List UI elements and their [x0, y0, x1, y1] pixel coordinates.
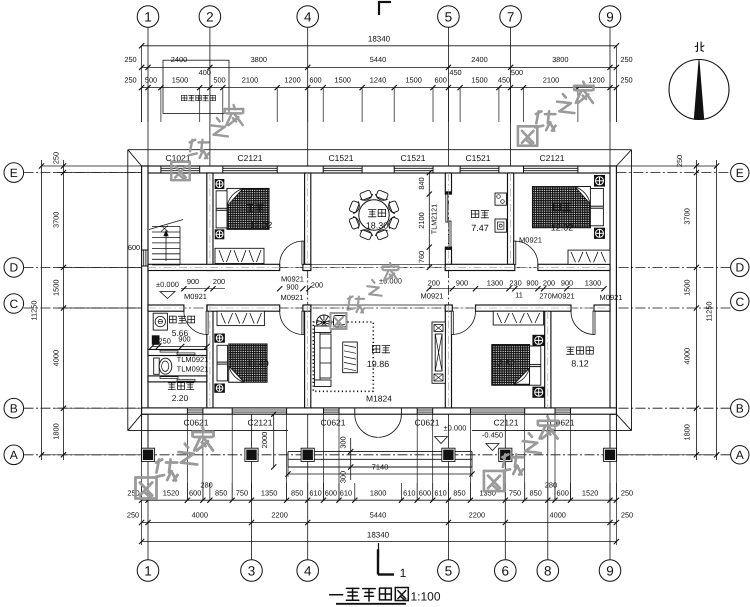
svg-text:E: E: [736, 166, 744, 180]
svg-text:1300: 1300: [585, 278, 601, 287]
svg-text:TLM0921: TLM0921: [177, 365, 209, 374]
bathroom divider wall lower: [148, 376, 207, 382]
svg-text:250: 250: [127, 510, 139, 519]
svg-text:13.52: 13.52: [493, 359, 516, 369]
dim 840 2100 760 beside dining: [428, 173, 430, 268]
svg-text:D: D: [9, 261, 18, 275]
dining table round with 8 chairs: [359, 200, 389, 230]
room label dining: [368, 210, 376, 217]
sliding door TLM2121 on grid5 wall: [446, 194, 448, 222]
svg-text:C: C: [735, 295, 744, 309]
svg-text:TLM0921: TLM0921: [177, 355, 209, 364]
nightstand+lamp bedroom4 lower: [532, 387, 545, 398]
watermark 3: [518, 126, 537, 145]
svg-text:4000: 4000: [683, 348, 692, 364]
wall on grid 2 (C-B): [207, 305, 213, 408]
TV cabinet living room: [432, 322, 445, 383]
sofa living room: [315, 332, 321, 380]
svg-text:E: E: [10, 166, 18, 180]
right exterior wall: [610, 166, 616, 414]
svg-text:TLM2121: TLM2121: [430, 204, 439, 234]
svg-text:610: 610: [403, 488, 415, 497]
svg-text:2100: 2100: [543, 76, 559, 85]
svg-text:250: 250: [675, 155, 684, 167]
svg-text:2000: 2000: [260, 432, 269, 448]
coffee table: [343, 342, 358, 373]
svg-text:5.66: 5.66: [172, 328, 189, 338]
svg-text:4000: 4000: [51, 350, 60, 366]
svg-text:610: 610: [309, 488, 321, 497]
svg-text:1: 1: [144, 9, 152, 24]
nightstand+lamp bedroom3 lower: [214, 384, 225, 393]
door M0921 bedroom2 (in wall D, swings up): [514, 241, 516, 264]
svg-text:1300: 1300: [487, 278, 503, 287]
svg-text:1350: 1350: [479, 488, 495, 497]
svg-text:1500: 1500: [51, 279, 60, 295]
gridline 7: [510, 27, 512, 166]
dim 7140 steps width: [288, 473, 472, 475]
svg-text:850: 850: [215, 488, 227, 497]
svg-text:250: 250: [124, 55, 136, 64]
room label bathroom: [169, 316, 176, 323]
svg-text:600: 600: [128, 243, 140, 252]
svg-text:9: 9: [606, 9, 614, 24]
svg-text:200: 200: [543, 278, 555, 287]
gridline 8: [547, 306, 549, 414]
headboard bedroom1: [216, 191, 227, 228]
washing machine bathroom: [153, 313, 167, 330]
svg-text:2200: 2200: [271, 510, 287, 519]
svg-text:600: 600: [189, 488, 201, 497]
svg-text:200: 200: [311, 281, 323, 290]
wall on grid 4 (E-D): [305, 173, 311, 271]
svg-text:250: 250: [620, 76, 632, 85]
wall on grid 4 (C-B): [305, 305, 311, 408]
entrance double door M1824: [354, 408, 356, 414]
svg-text:5: 5: [445, 563, 453, 578]
svg-text:3700: 3700: [683, 208, 692, 224]
closet bedroom2 hatch: [568, 250, 610, 264]
svg-text:2100: 2100: [417, 212, 426, 228]
watermark 2: [331, 313, 347, 329]
room label washroom: [168, 383, 175, 390]
svg-text:750: 750: [236, 488, 248, 497]
svg-text:4000: 4000: [549, 510, 565, 519]
svg-text:5440: 5440: [370, 510, 386, 519]
svg-text:280: 280: [200, 481, 212, 490]
svg-text:1520: 1520: [582, 488, 598, 497]
bathroom divider wall upper: [148, 350, 207, 356]
sliding door TLM0921 on lower bathroom divider: [160, 377, 178, 379]
kitchen counter with sink: [495, 219, 506, 232]
svg-text:300: 300: [338, 471, 347, 483]
headboard bedroom4: [530, 346, 541, 385]
svg-text:900: 900: [526, 278, 538, 287]
svg-text:1: 1: [144, 563, 152, 578]
svg-text:5: 5: [445, 9, 453, 24]
wall on grid 8 (C-B): [545, 305, 551, 408]
bottom exterior wall: [142, 408, 617, 414]
nightstand+lamp bedroom3 upper: [214, 334, 225, 343]
svg-text:7.47: 7.47: [471, 223, 489, 233]
left extension lines: [42, 165, 142, 167]
nightstand+lamp bedroom4 upper: [532, 335, 545, 346]
septic tank rectangle: [163, 60, 229, 113]
axis bubbles right: [731, 163, 749, 181]
svg-text:900: 900: [456, 278, 468, 287]
window left wall stair bay: [143, 250, 145, 266]
north arrow: [669, 60, 729, 120]
svg-text:2200: 2200: [469, 510, 485, 519]
svg-text:2400: 2400: [171, 55, 187, 64]
svg-text:3800: 3800: [552, 55, 568, 64]
faint centerlines through walls: [209, 173, 211, 264]
svg-text:4: 4: [304, 9, 312, 24]
svg-text:500: 500: [213, 76, 225, 85]
eave corner diagonals: [128, 150, 142, 166]
gridline A: [24, 454, 732, 456]
svg-text:12.02: 12.02: [250, 220, 273, 230]
watermark 1: [171, 162, 189, 180]
entrance steps: [288, 451, 472, 453]
gridline 5: [447, 27, 449, 166]
svg-text:M0921: M0921: [421, 291, 444, 300]
svg-text:B: B: [736, 402, 744, 416]
svg-text:1350: 1350: [261, 488, 277, 497]
porch side lines right: [615, 414, 617, 449]
svg-text:C2121: C2121: [539, 153, 564, 163]
closet bedroom3 hatch: [217, 311, 264, 325]
svg-text:450: 450: [449, 68, 461, 77]
gridline 4: [307, 27, 309, 166]
svg-text:11250: 11250: [29, 300, 38, 320]
svg-text:900: 900: [561, 278, 573, 287]
svg-text:300: 300: [338, 436, 347, 448]
svg-text:900: 900: [187, 277, 199, 286]
svg-text:600: 600: [325, 488, 337, 497]
nightstand+lamp bedroom2 lower: [594, 228, 605, 239]
svg-text:250: 250: [621, 488, 633, 497]
room label dressing: [567, 347, 575, 354]
right extension lines: [616, 165, 716, 167]
svg-text:1500: 1500: [405, 76, 421, 85]
top dimension row axis distances: [142, 66, 617, 68]
svg-text:M0921: M0921: [600, 293, 623, 302]
single sofa chair: [334, 316, 347, 328]
kitchen counter with stove: [495, 193, 506, 205]
gridline 1: [147, 27, 149, 166]
svg-text:5440: 5440: [370, 55, 386, 64]
room label bedroom2: [554, 203, 561, 210]
section mark bottom (L shape): [377, 549, 379, 574]
svg-text:600: 600: [557, 488, 569, 497]
svg-text:M0921: M0921: [281, 293, 304, 302]
window C1521 top wall dining left: [323, 167, 362, 169]
svg-text:M1824: M1824: [366, 394, 392, 404]
window C0621 bottom wall dressing room: [555, 409, 571, 411]
svg-text:C0621: C0621: [183, 418, 208, 428]
room label living: [373, 345, 380, 352]
svg-text:C2121: C2121: [247, 418, 272, 428]
window C1521 top wall dining right: [394, 167, 433, 169]
svg-text:C0621: C0621: [414, 418, 439, 428]
sliding door TLM0921 on upper bathroom divider: [160, 350, 178, 352]
window C0621 bottom wall living right: [417, 409, 433, 411]
svg-text:600: 600: [419, 488, 431, 497]
window C0621 bottom wall living left: [324, 409, 340, 411]
nightstand+lamp bedroom1 lower: [215, 229, 225, 239]
top exterior wall: [142, 166, 617, 173]
svg-text:11.49: 11.49: [247, 359, 269, 369]
svg-text:610: 610: [434, 488, 446, 497]
svg-text:-0.450: -0.450: [482, 431, 503, 440]
lintel line over living-corridor opening: [311, 304, 446, 306]
eave outline: [128, 149, 632, 151]
svg-text:840: 840: [417, 177, 426, 189]
svg-text:250: 250: [127, 488, 139, 497]
svg-text:4000: 4000: [192, 510, 208, 519]
toilet washroom: [154, 358, 160, 374]
nightstand+lamp bedroom1 upper: [215, 179, 225, 189]
svg-text:18.30: 18.30: [366, 221, 389, 231]
svg-text:250: 250: [124, 76, 136, 85]
door M0921 bedroom3 (in wall C, swings down): [302, 311, 304, 334]
svg-text:C2121: C2121: [493, 418, 518, 428]
svg-text:1800: 1800: [370, 488, 386, 497]
watermark 4: [136, 478, 157, 499]
stair break line: [149, 220, 183, 230]
svg-text:D: D: [735, 261, 744, 275]
door M0921 bedroom4 (in wall C, swings down): [451, 311, 453, 334]
gridline 2: [209, 27, 211, 166]
svg-text:8: 8: [544, 563, 552, 578]
svg-text:6: 6: [502, 563, 510, 578]
gridline 3: [251, 414, 253, 560]
section mark top: [378, 1, 380, 15]
svg-text:A: A: [736, 448, 744, 462]
svg-text:C2121: C2121: [237, 153, 262, 163]
svg-text:1200: 1200: [588, 76, 604, 85]
wall C segments: [148, 305, 184, 311]
svg-text:450: 450: [498, 76, 510, 85]
svg-text:B: B: [10, 402, 18, 416]
svg-text:270M0921: 270M0921: [539, 291, 574, 300]
gridline 6: [504, 414, 506, 560]
gridline C: [24, 307, 732, 309]
svg-text:±0.000: ±0.000: [444, 424, 467, 433]
svg-text:19.86: 19.86: [367, 359, 390, 369]
svg-text:C1521: C1521: [400, 153, 425, 163]
svg-text:2.20: 2.20: [172, 393, 189, 403]
axis bubbles top: [137, 6, 159, 28]
svg-text:1800: 1800: [51, 423, 60, 439]
headboard bedroom2: [590, 189, 603, 226]
svg-text:M0921: M0921: [184, 292, 207, 301]
axis bubbles left: [4, 163, 24, 183]
bed bedroom4: [492, 345, 530, 386]
plant in living room: [317, 315, 332, 330]
svg-text:C1521: C1521: [328, 153, 353, 163]
window C1021 top wall stair bay: [161, 167, 200, 169]
svg-text:1500: 1500: [334, 76, 350, 85]
room label kitchen: [472, 210, 479, 217]
wall on grid 5 (C-B): [445, 305, 451, 408]
sliding door TLM2121 jamb caps: [445, 191, 451, 194]
svg-text:850: 850: [453, 488, 465, 497]
svg-text:C0621: C0621: [320, 418, 345, 428]
gridline 9: [609, 27, 611, 166]
gridline D: [24, 266, 732, 268]
left dims: [63, 160, 65, 460]
bottom dimension row detailed: [142, 499, 617, 501]
svg-text:1800: 1800: [683, 424, 692, 440]
black pier bathroom: [152, 335, 160, 345]
svg-text:200: 200: [213, 277, 225, 286]
svg-text:230: 230: [509, 278, 521, 287]
svg-text:3800: 3800: [251, 55, 267, 64]
bed bedroom2: [533, 187, 591, 228]
stair up arrow: [165, 234, 167, 261]
porch columns on axis A: [141, 448, 154, 461]
wall on grid 5 upper segment with sliding door opening: [445, 173, 451, 194]
svg-text:250: 250: [620, 55, 632, 64]
svg-text:250: 250: [621, 510, 633, 519]
bottom dim extension lines: [141, 483, 143, 500]
svg-text:3: 3: [248, 563, 256, 578]
svg-text:11: 11: [515, 291, 523, 300]
svg-text:250: 250: [51, 152, 60, 164]
svg-text:850: 850: [530, 488, 542, 497]
living room carpet dotted: [313, 322, 373, 391]
svg-text:760: 760: [417, 251, 426, 263]
svg-text:500: 500: [145, 76, 157, 85]
door M0921 bathroom (in wall C, swings down): [206, 311, 208, 334]
section cut tick bottom: [378, 543, 380, 557]
porch side lines left: [141, 414, 143, 449]
title first floor plan: [330, 594, 343, 596]
bed bedroom3: [229, 344, 267, 382]
top dim extension lines: [141, 88, 143, 122]
dim 2000 porch depth: [273, 414, 275, 467]
window C2121 bottom wall bedroom3: [232, 409, 286, 411]
svg-text:610: 610: [340, 488, 352, 497]
svg-text:1500: 1500: [683, 279, 692, 295]
svg-text:1520: 1520: [163, 488, 179, 497]
svg-text:850: 850: [291, 488, 303, 497]
svg-text:1500: 1500: [172, 76, 188, 85]
svg-text:500: 500: [511, 68, 523, 77]
svg-text:C: C: [9, 297, 18, 311]
top dimension row total 18340: [142, 45, 617, 47]
svg-text:7140: 7140: [372, 463, 388, 472]
lintel line over dining-corridor opening: [311, 263, 446, 265]
bottom dimension row axis distances: [142, 522, 617, 524]
svg-text:200: 200: [428, 278, 440, 287]
closet bedroom1 hatch: [215, 248, 264, 263]
window C2121 top wall bedroom2: [524, 167, 578, 169]
svg-text:4: 4: [304, 563, 312, 578]
svg-text:M0921: M0921: [519, 236, 542, 245]
svg-text:11250: 11250: [705, 301, 714, 321]
gridline E: [24, 172, 142, 174]
window C2121 top wall bedroom1: [223, 167, 277, 169]
bed bedroom1 (hatched mattress): [227, 189, 269, 230]
stairs: [152, 226, 180, 228]
dim 300 300 steps: [350, 438, 352, 480]
svg-text:1240: 1240: [370, 76, 386, 85]
nightstand+lamp bedroom2 upper: [594, 175, 605, 187]
svg-text:3700: 3700: [51, 212, 60, 228]
svg-text:600: 600: [435, 76, 447, 85]
svg-text:2100: 2100: [242, 76, 258, 85]
svg-text:7: 7: [507, 9, 515, 24]
door M0921 bedroom1 (in wall D, swings up): [302, 241, 304, 264]
window C1521 top wall kitchen: [460, 167, 499, 169]
wall D segments: [148, 264, 280, 270]
svg-text:1500: 1500: [471, 76, 487, 85]
svg-text:±0.000: ±0.000: [156, 280, 179, 289]
svg-text:18340: 18340: [367, 530, 390, 539]
axis bubbles bottom: [137, 560, 159, 582]
window C2121 bottom wall bedroom4: [470, 409, 524, 411]
door M0921 dressing room (in wall C, swings down): [593, 311, 595, 334]
wall on grid 7 (E-D): [508, 173, 514, 271]
svg-text:1: 1: [400, 566, 407, 580]
room label bedroom1: [247, 204, 254, 211]
svg-text:600: 600: [309, 76, 321, 85]
wall on grid 2 (E-D): [207, 173, 213, 271]
svg-text:18340: 18340: [368, 35, 391, 44]
watermark 5: [484, 471, 504, 491]
svg-text:A: A: [10, 448, 18, 462]
right dims: [695, 160, 697, 460]
svg-text:8.12: 8.12: [571, 359, 589, 369]
svg-text:2: 2: [206, 9, 214, 24]
svg-text:400: 400: [199, 68, 211, 77]
svg-text:2400: 2400: [471, 55, 487, 64]
svg-text:750: 750: [509, 488, 521, 497]
closet bedroom4 hatch: [493, 311, 543, 325]
svg-text:1200: 1200: [284, 76, 300, 85]
svg-text:9: 9: [606, 563, 614, 578]
gridline B: [24, 407, 732, 409]
left exterior wall: [142, 166, 148, 414]
top dimension row detailed: [142, 87, 617, 89]
svg-text:C1521: C1521: [465, 153, 490, 163]
svg-text:900: 900: [286, 283, 298, 292]
svg-text:1:100: 1:100: [410, 590, 440, 604]
bottom dimension row total 18340: [142, 541, 617, 543]
headboard bedroom3: [217, 345, 228, 381]
window C0621 bottom wall washroom: [187, 409, 203, 411]
svg-text:12.02: 12.02: [551, 223, 574, 233]
